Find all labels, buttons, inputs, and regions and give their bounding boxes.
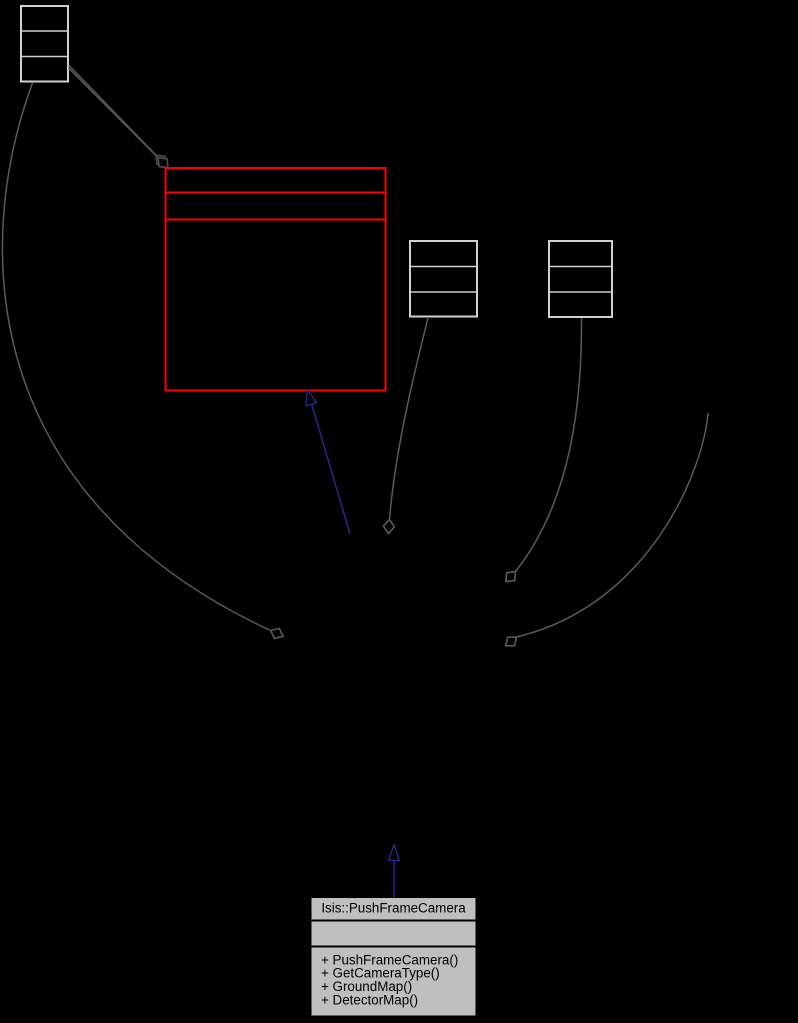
open diamond end of right edge (506, 637, 517, 646)
blue inheritance edge into red node bottom (hollow arrowhead) (312, 404, 350, 534)
aggregation edge 1 from top-left node to red node (diagonal) (69, 65, 156, 155)
aggregation edge from node B bottom to open diamond (516, 318, 582, 572)
open diamond at end of left long edge (271, 628, 284, 638)
class node box top-left (unnamed, 3 compartments) (20, 6, 69, 82)
open diamond 1 at red node top-left corner (156, 155, 166, 165)
aggregation edge from upper right curving to open diamond (517, 413, 709, 637)
aggregation edge 2 from top-left node to red node (diagonal, parallel) (69, 68, 158, 158)
blue inheritance edge above Isis::PushFrameCamera (hollow arrowhead) (393, 859, 395, 898)
class node box B (3 compartments) (548, 241, 613, 317)
long aggregation edge from top-left node bottom, curving down the left side (2, 83, 270, 631)
open diamond below node A (383, 520, 394, 534)
class node box A (3 compartments) (409, 241, 478, 317)
red class node (truncated class, 3 compartments) (165, 168, 387, 391)
Isis::PushFrameCamera class node (gray filled) (312, 898, 476, 1016)
aggregation edge from node A bottom to open diamond (390, 318, 429, 520)
svg-text:+ DetectorMap(): + DetectorMap() (321, 993, 418, 1008)
open diamond 2 at red node top-left corner (158, 158, 168, 168)
svg-text:Isis::PushFrameCamera: Isis::PushFrameCamera (321, 901, 466, 916)
open diamond below node B (506, 572, 516, 582)
